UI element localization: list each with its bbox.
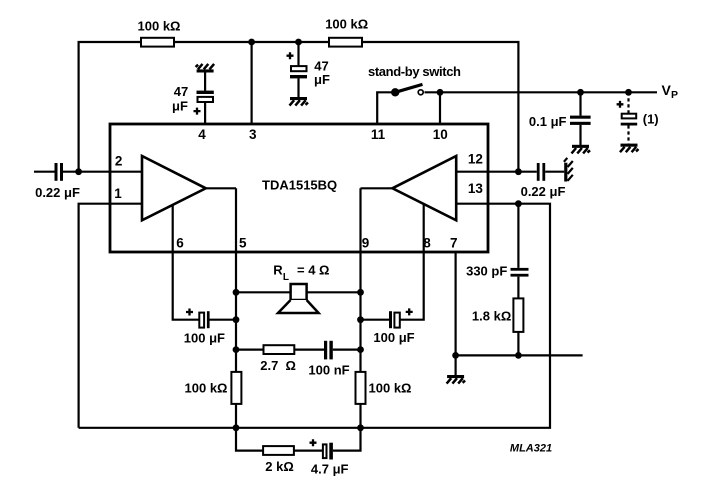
svg-text:10: 10 (433, 127, 448, 142)
svg-text:R: R (273, 262, 283, 277)
svg-text:47: 47 (174, 84, 188, 99)
svg-text:100 kΩ: 100 kΩ (325, 17, 368, 32)
svg-text:8: 8 (423, 236, 431, 251)
svg-text:P: P (671, 89, 678, 101)
svg-text:4: 4 (198, 127, 206, 142)
svg-text:V: V (662, 82, 672, 98)
svg-text:100 μF: 100 μF (184, 331, 225, 346)
svg-text:stand-by switch: stand-by switch (368, 64, 461, 79)
svg-text:100 kΩ: 100 kΩ (138, 19, 181, 34)
svg-text:9: 9 (362, 236, 370, 251)
svg-text:6: 6 (176, 236, 184, 251)
svg-text:= 4 Ω: = 4 Ω (297, 262, 329, 277)
svg-text:μF: μF (172, 98, 188, 113)
svg-text:100 nF: 100 nF (308, 363, 349, 378)
svg-text:0.1 μF: 0.1 μF (529, 114, 567, 129)
svg-text:11: 11 (371, 127, 386, 142)
svg-text:3: 3 (249, 127, 257, 142)
svg-text:2: 2 (115, 153, 123, 168)
svg-text:1: 1 (114, 186, 122, 201)
svg-text:13: 13 (468, 181, 484, 196)
svg-text:MLA321: MLA321 (510, 442, 552, 454)
svg-text:100 kΩ: 100 kΩ (185, 381, 228, 396)
svg-text:100 μF: 100 μF (373, 330, 414, 345)
svg-text:(1): (1) (643, 112, 659, 127)
svg-text:12: 12 (468, 151, 483, 166)
svg-text:5: 5 (239, 236, 247, 251)
svg-text:7: 7 (450, 236, 458, 251)
svg-text:2 kΩ: 2 kΩ (265, 459, 294, 474)
svg-text:0.22 μF: 0.22 μF (35, 185, 80, 200)
svg-text:μF: μF (314, 72, 330, 87)
svg-text:1.8 kΩ: 1.8 kΩ (472, 309, 511, 324)
svg-text:2.7 Ω: 2.7 Ω (260, 358, 296, 373)
svg-text:4.7 μF: 4.7 μF (311, 461, 349, 476)
svg-text:330 pF: 330 pF (466, 264, 507, 279)
svg-text:100 kΩ: 100 kΩ (369, 381, 412, 396)
svg-text:TDA1515BQ: TDA1515BQ (262, 178, 337, 193)
svg-text:L: L (283, 272, 289, 283)
svg-text:0.22 μF: 0.22 μF (521, 184, 566, 199)
